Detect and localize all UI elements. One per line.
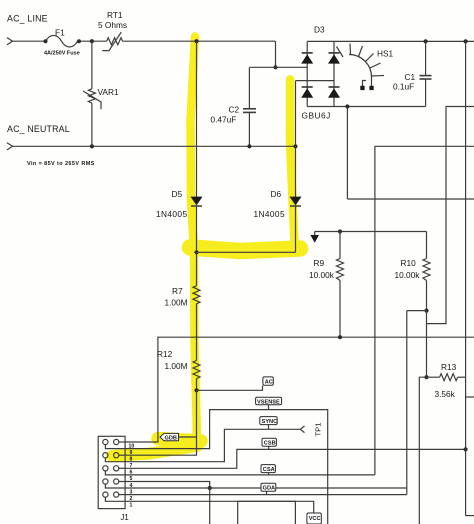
capacitor C1 [425,41,427,75]
node R13 junction [424,375,428,379]
svg-text:3: 3 [130,489,133,495]
svg-text:D6: D6 [271,189,282,199]
node C2 branch junction [273,65,277,69]
IC box right [465,41,467,515]
wire arrow to R10 [315,231,427,233]
wire R10 bottom to GDA riser [407,310,427,312]
node R9 top junction [338,229,342,233]
svg-text:SYNC: SYNC [262,419,278,425]
connector J1 [98,436,125,508]
net label GDA [261,483,276,491]
wire pin3 GDA [125,487,407,489]
wire AC neutral [13,145,296,147]
wire AC net to label [197,386,263,391]
node bridge bottom junction [345,104,349,108]
svg-text:VCC: VCC [309,516,321,522]
diode D3-4 [328,88,340,97]
wire to right edge y199 [347,198,474,200]
net label CSA [261,465,275,473]
test point TP1 [300,426,304,433]
svg-text:R12: R12 [157,349,173,359]
svg-text:GBU6J: GBU6J [302,111,331,121]
svg-text:R9: R9 [314,258,325,268]
node R9 bottom junction [338,335,342,339]
resistor R13 [427,376,440,378]
resistor R10 [426,232,428,259]
svg-text:10: 10 [129,443,135,449]
wire CSB net [125,449,466,468]
svg-text:7: 7 [130,463,133,469]
wire GDB drop [125,390,196,455]
resistor R9 [339,232,341,259]
wire bottom rail branch down [346,107,348,200]
node D5 branch junction [194,39,198,43]
wire DC+ rail [307,40,474,42]
diode D6 [290,197,302,206]
svg-text:R10: R10 [401,258,417,268]
wire R7 to R12 [196,304,198,361]
svg-text:VSENSE: VSENSE [257,399,280,405]
svg-text:4: 4 [130,483,133,489]
node D6 neutral junction [293,144,297,148]
svg-text:C1: C1 [405,72,416,82]
svg-text:1.00M: 1.00M [165,298,188,308]
svg-text:AC: AC [265,380,273,386]
wire AC line input arrow [7,38,13,45]
resistor R12 [193,361,200,379]
svg-text:CSB: CSB [264,441,276,447]
node C2 bottom junction [247,144,251,148]
highlighter trace (yellow) [112,37,300,457]
wire neutral right segment [375,146,474,475]
net label VCC [307,513,321,524]
svg-text:1N4005: 1N4005 [254,209,285,219]
wire CSA long [125,474,375,476]
node pin3 junction [208,486,212,490]
wire D6 branch [295,81,297,197]
wire AC line to fuse [13,40,46,42]
resistor R7 [196,252,198,285]
wire R13 left stub [419,377,426,524]
wire pin4 jog [125,482,210,524]
svg-text:0.1uF: 0.1uF [393,82,414,92]
net label AC [263,377,273,386]
node C1 top junction [424,39,428,43]
net label VSENSE [256,397,282,405]
svg-text:2: 2 [130,496,133,502]
svg-text:10.00k: 10.00k [395,270,421,280]
wire CSA stub [268,473,270,475]
svg-text:GDB: GDB [165,436,177,442]
node R12 bottom junction [194,388,198,392]
svg-text:3.56k: 3.56k [435,389,456,399]
svg-text:C2: C2 [229,105,240,115]
net label SYNC [260,417,277,425]
wire fuse to junction [79,40,107,42]
wire AC neutral input arrow [7,143,13,150]
svg-text:1: 1 [130,503,133,509]
net label CSB [262,438,276,446]
node R10 bottom junction [424,309,428,313]
svg-text:TP1: TP1 [314,423,323,437]
svg-text:RT1: RT1 [107,10,123,20]
wire bridge right tap [296,80,335,82]
wire corner down to bridge tap [275,41,277,67]
capacitor C2 [248,67,250,109]
bridge rectifier D3 [306,41,308,106]
wire long y337 [125,337,474,442]
wire RT1 to corner [123,40,276,42]
svg-text:6: 6 [130,470,133,476]
wire cathode band [197,251,296,253]
svg-text:8: 8 [130,457,133,463]
varistor VAR1 [91,41,93,89]
node CSB IC junction [464,447,468,451]
diode D5 [191,197,203,206]
svg-text:CSA: CSA [263,467,275,473]
diode D3-3 [301,88,313,97]
wire SYNC net [125,429,300,461]
fuse F1 [46,35,78,47]
svg-text:1N4005: 1N4005 [156,209,187,219]
svg-text:10.00k: 10.00k [309,270,335,280]
node VAR1 bottom junction [90,144,94,148]
heatsink HS1 [349,55,372,78]
svg-text:HS1: HS1 [377,49,394,59]
svg-text:J1: J1 [121,513,129,522]
node D5/D6 cathode junction [194,250,198,254]
node VAR1 junction [90,39,94,43]
thermistor RT1 [107,38,123,45]
power arrow [314,232,316,236]
wire GDB flag stub [178,436,197,438]
wire VSENSE net [125,410,328,524]
node right edge junction [464,39,468,43]
svg-text:9: 9 [130,450,133,456]
svg-text:R7: R7 [172,286,183,296]
svg-text:AC_ NEUTRAL: AC_ NEUTRAL [7,124,70,134]
wire tap line C2 to bridge [249,66,307,68]
svg-text:0.47uF: 0.47uF [211,115,237,125]
svg-text:4A/250V Fuse: 4A/250V Fuse [44,51,80,57]
svg-text:R13: R13 [441,362,457,372]
wire right net y106 [427,107,474,324]
svg-text:GDA: GDA [263,486,275,492]
svg-text:1.00M: 1.00M [165,361,188,371]
component box bottom [238,501,296,524]
svg-text:AC_ LINE: AC_ LINE [7,14,48,24]
wire GDA riser [406,311,408,495]
svg-text:5 Ohms: 5 Ohms [98,20,127,30]
wire pin2 GDA [125,494,407,496]
svg-text:VAR1: VAR1 [98,87,119,97]
svg-text:5: 5 [130,476,133,482]
svg-text:Vin = 85V to 265V RMS: Vin = 85V to 265V RMS [27,161,95,167]
wire R10 bottom down to R13 [426,311,428,378]
diode D3-2 [328,54,340,63]
svg-text:F1: F1 [55,28,65,38]
svg-text:D5: D5 [172,189,183,199]
wire D5 branch [196,41,198,197]
diode D3-1 [301,54,313,63]
net flag GDB [160,433,179,441]
wire pin1 VCC [125,501,314,513]
svg-text:D3: D3 [314,25,325,35]
